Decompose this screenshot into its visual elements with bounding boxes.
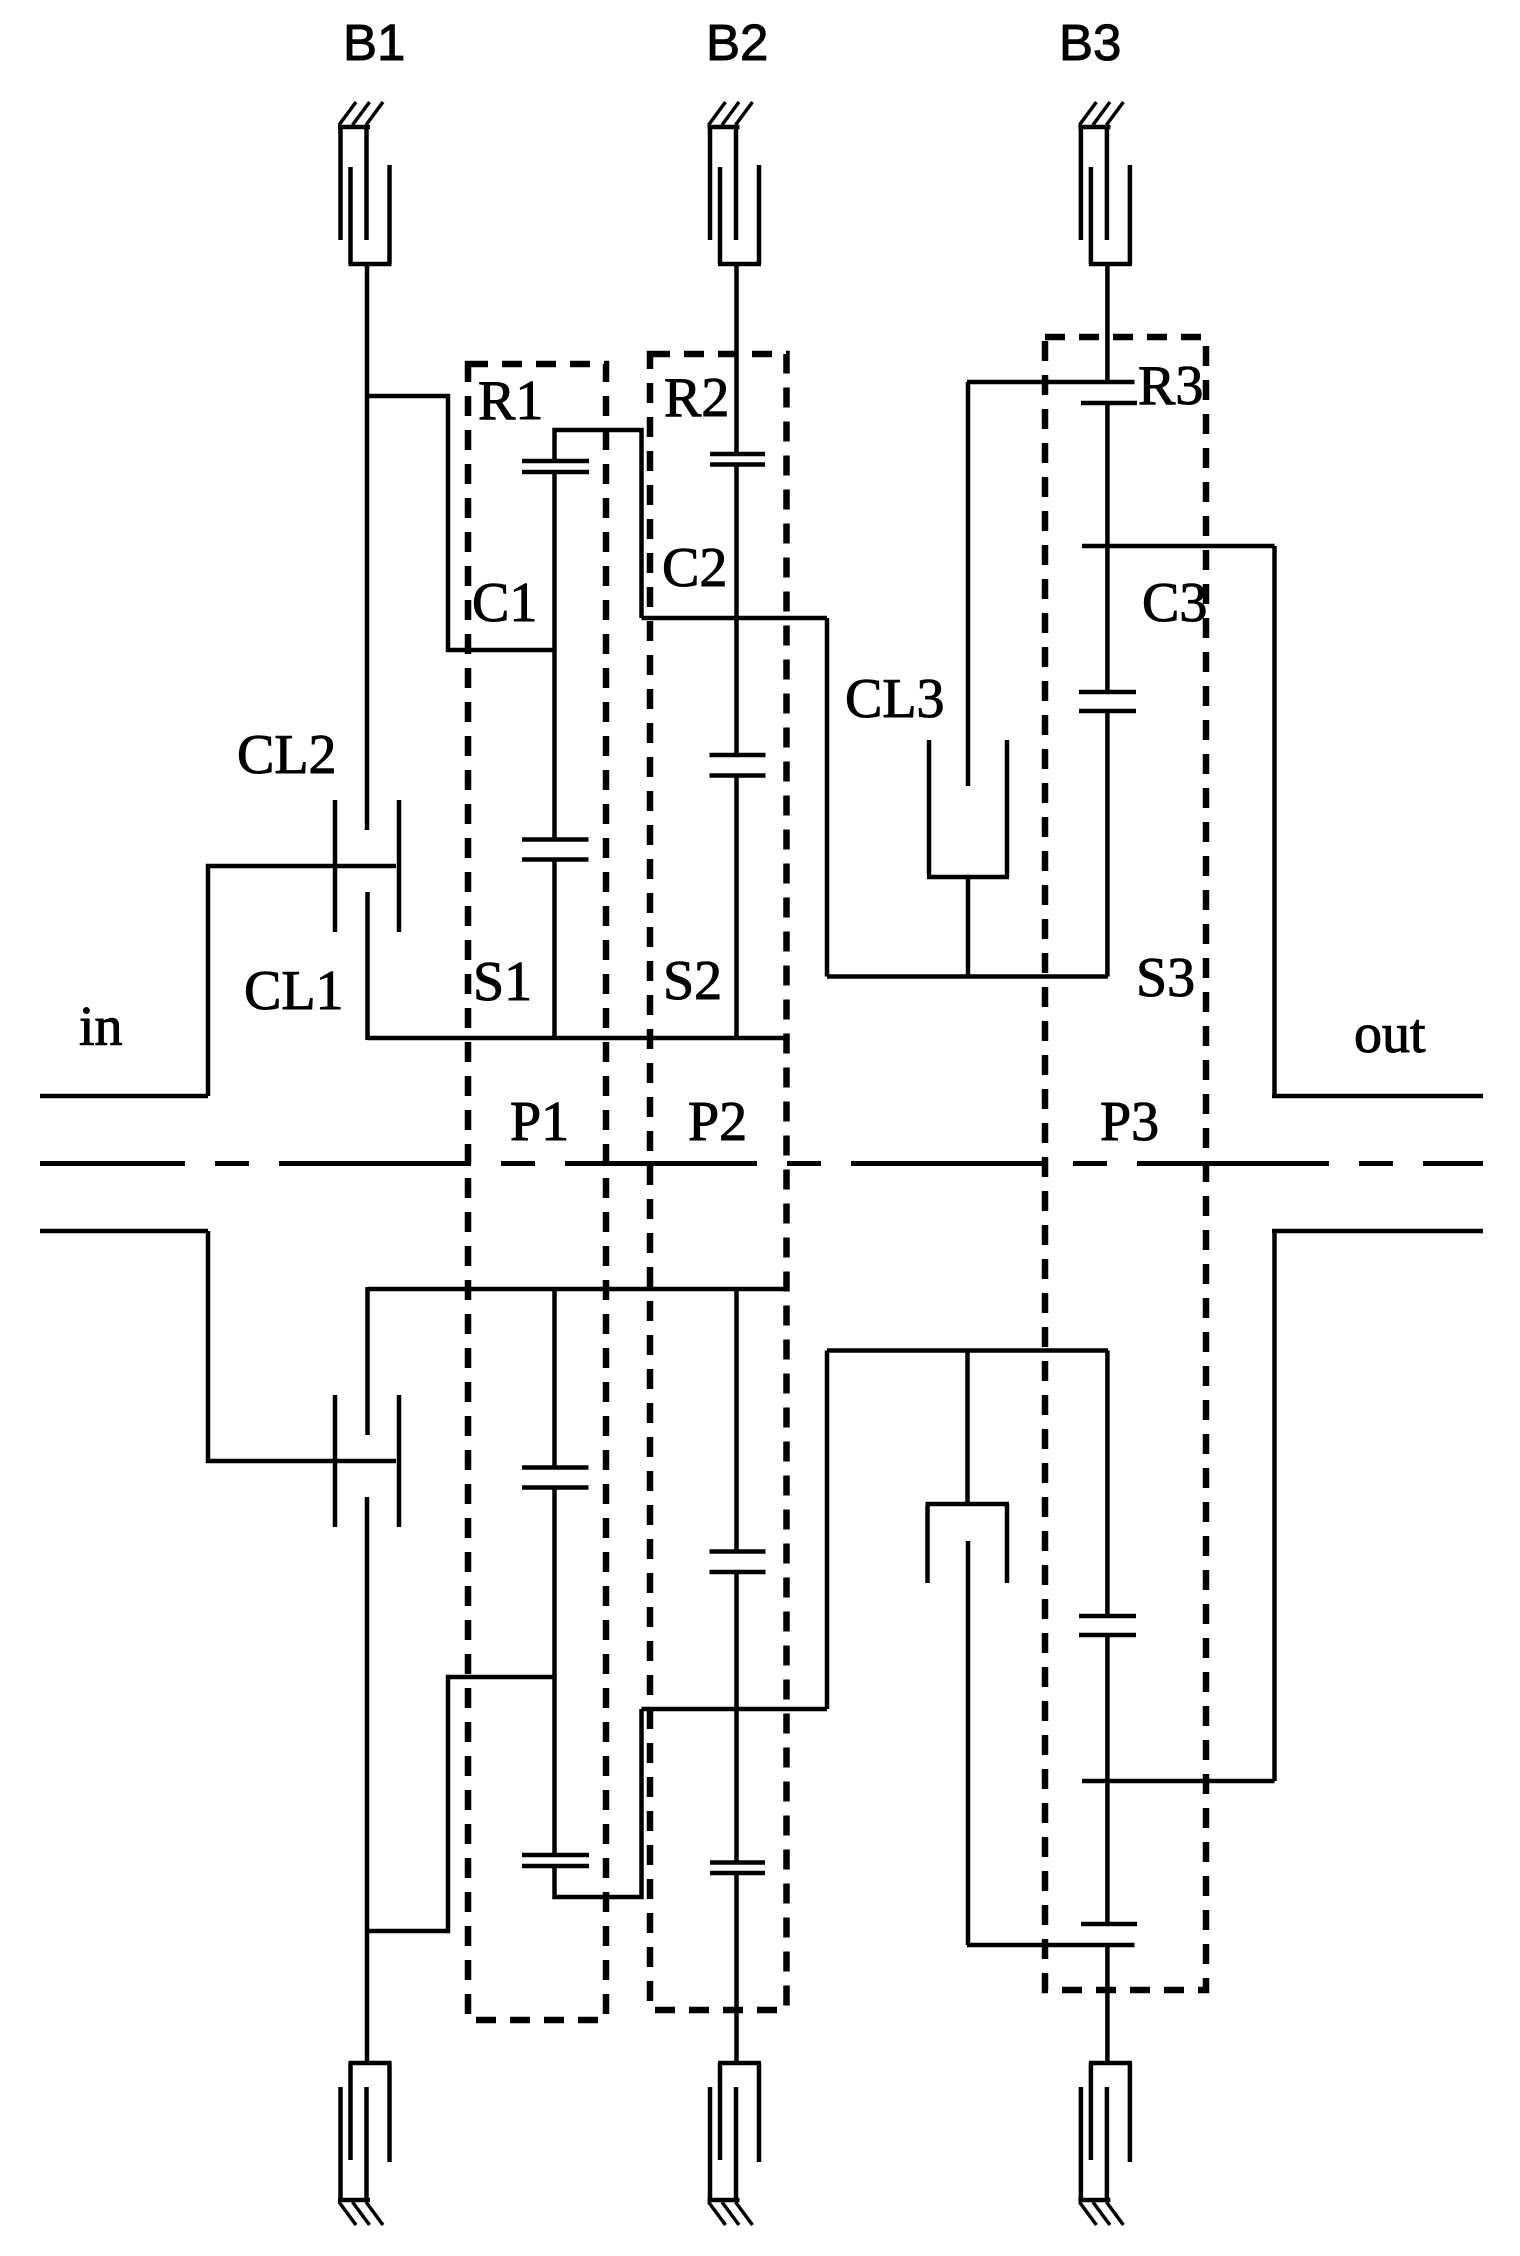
wire lower input riser (206, 1231, 211, 1463)
sun S2 gear mesh (710, 753, 766, 758)
svg-text:P3: P3 (1100, 1091, 1159, 1153)
wire B2 stem to ring R2 mesh (734, 264, 739, 454)
wire lower sun S2 stem (734, 1289, 739, 1552)
wire carrier C2 line (642, 616, 828, 621)
ground hatching of brake B3 lower mirror (1079, 2202, 1096, 2225)
brake B3 lower grounded fork (1078, 2087, 1110, 2200)
shaft centerline (dash-dot axis) (40, 1161, 1483, 1166)
wire B1 stem to clutch CL2 (365, 264, 370, 830)
brake B2 lower grounded fork (708, 2087, 740, 2200)
lower clutch common bar (206, 1459, 396, 1464)
wire C2 to S3 riser (825, 618, 830, 977)
wire lower B1 stem (365, 1497, 370, 2063)
wire sun S3 stem (1105, 711, 1110, 977)
svg-text:P1: P1 (510, 1091, 569, 1153)
brake B3 grounded fork (1078, 127, 1110, 240)
sun S3 gear mesh (1079, 690, 1136, 695)
lower ring R2 gear mesh (710, 1871, 765, 1876)
ring R1 gear mesh (522, 459, 589, 464)
wire sun shaft S3 (827, 974, 1108, 979)
lower sun S2 gear mesh (710, 1570, 766, 1575)
svg-text:in: in (79, 996, 123, 1058)
ground hatching of brake B2 (709, 102, 726, 125)
clutch CL2/CL1 common bar (206, 864, 396, 869)
wire lower carrier C1 bracket (367, 1677, 555, 1931)
wire lower B3 stem (1105, 1945, 1110, 2063)
clutch CL2 left prong (333, 800, 338, 932)
lower sun S1 gear mesh (522, 1485, 589, 1490)
svg-text:B2: B2 (706, 14, 768, 71)
planetary gearset P2 dashed box (650, 354, 787, 2010)
wire lower CL3 cup stem (965, 1350, 970, 1504)
svg-text:S3: S3 (1136, 947, 1195, 1009)
svg-text:P2: P2 (688, 1091, 747, 1153)
wire B3 stem to ring R3 mesh (1105, 264, 1110, 382)
svg-text:S2: S2 (663, 950, 722, 1012)
svg-text:R1: R1 (478, 370, 543, 432)
svg-text:S1: S1 (473, 951, 532, 1013)
lower ring R3 gear mesh bar (1081, 1922, 1137, 1927)
sun S1 gear mesh (522, 837, 589, 842)
clutch CL3 cup (927, 740, 1009, 877)
brake B2 shaft fork (718, 165, 761, 264)
input shaft lower line (40, 1229, 208, 1234)
svg-text:CL2: CL2 (237, 724, 337, 786)
brake B1 lower shaft fork (349, 2063, 392, 2162)
svg-text:R3: R3 (1138, 355, 1203, 417)
planet P3 pinion line (1105, 403, 1110, 692)
brake B2 grounded fork (708, 127, 740, 240)
brake B2 lower shaft fork (718, 2063, 761, 2162)
wire lower ring R3 bar (967, 1943, 1135, 1948)
wire lower carrier C3 line (1082, 1779, 1275, 1784)
svg-text:out: out (1354, 1003, 1426, 1065)
wire carrier C3 line to output (1082, 544, 1275, 549)
ground hatching of brake B1 (339, 102, 356, 125)
planet P2 pinion line (734, 465, 739, 756)
svg-text:C3: C3 (1142, 572, 1207, 634)
wire CL3 stem from ring R3 bar (966, 382, 971, 786)
wire lower output riser (1272, 1231, 1277, 1781)
wire sun S1 stem (552, 860, 557, 1039)
wire sun shaft S1-S2 (368, 1036, 787, 1041)
wire lower CL1 stem (365, 1287, 370, 1435)
clutch CL2 right prong (397, 800, 402, 932)
ground hatching of brake B3 (1079, 102, 1096, 125)
brake B1 grounded fork (338, 127, 370, 240)
ring R2 gear mesh (710, 452, 765, 457)
ring R3 gear mesh bar (1081, 401, 1137, 406)
lower clutch right prong (397, 1395, 402, 1527)
wire lower carrier C2 line (642, 1707, 828, 1712)
lower ring R1 gear mesh (522, 1864, 589, 1869)
svg-text:R2: R2 (664, 367, 729, 429)
wire ring R1 staple link (555, 430, 642, 618)
wire lower ring R1 staple link (555, 1709, 642, 1897)
wire lower C2 to S3 riser (825, 1351, 830, 1710)
lower planet P3 pinion line (1105, 1635, 1110, 1924)
ground hatching of brake B1 lower mirror (339, 2202, 356, 2225)
wire lower sun shaft S3 (827, 1348, 1108, 1353)
wire CL3 to sun shaft S3 (966, 877, 971, 978)
ground hatching of brake B2 lower mirror (709, 2202, 726, 2225)
wire lower sun S3 stem (1105, 1351, 1110, 1617)
svg-text:C1: C1 (472, 572, 537, 634)
lower sun S3 gear mesh (1079, 1633, 1136, 1638)
brake B3 shaft fork (1089, 165, 1132, 264)
lower clutch left prong (333, 1395, 338, 1527)
wire lower sun S1 stem (552, 1289, 557, 1468)
svg-text:B3: B3 (1059, 14, 1121, 71)
wire lower sun shaft S1-S2 (368, 1287, 787, 1292)
svg-text:CL3: CL3 (845, 668, 945, 730)
planet P1 pinion line (552, 472, 557, 840)
input shaft "in" (40, 1094, 208, 1099)
lower planet P2 pinion line (734, 1572, 739, 1863)
brake B1 lower grounded fork (338, 2087, 370, 2200)
svg-text:CL1: CL1 (244, 960, 344, 1022)
svg-text:C2: C2 (662, 537, 727, 599)
lower planet P1 pinion line (552, 1488, 557, 1856)
brake B1 shaft fork (349, 165, 392, 264)
wire input riser to clutch bar (206, 864, 211, 1096)
wire sun S2 stem (734, 776, 739, 1039)
wire CL1 stem to sun shaft (365, 892, 370, 1040)
wire output riser from carrier C3 (1272, 546, 1277, 1096)
wire lower B2 stem (734, 1873, 739, 2063)
planetary gearset P1 dashed box (468, 364, 606, 2020)
lower clutch CL3 cup (926, 1504, 1010, 1583)
wire ring R3 bar (967, 380, 1135, 385)
svg-text:B1: B1 (343, 14, 405, 71)
output shaft lower line (1272, 1229, 1483, 1234)
wire carrier C1 bracket (367, 396, 555, 650)
planetary gearset P3 dashed box (1045, 337, 1206, 1990)
brake B3 lower shaft fork (1089, 2063, 1132, 2162)
output shaft "out" (1272, 1094, 1483, 1099)
wire lower CL3 stem (966, 1541, 971, 1945)
